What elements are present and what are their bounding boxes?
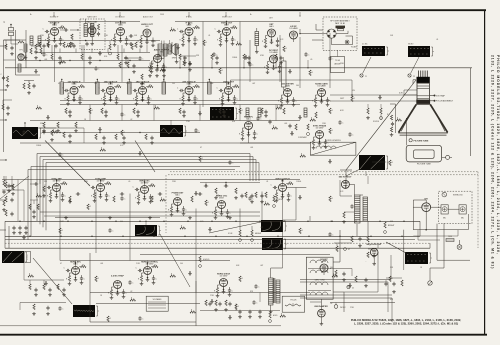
waveform photo W6 sync output (135, 225, 161, 236)
inter-row vertical wire 12 (226, 33, 228, 87)
svg-text:AUDIO OUT: AUDIO OUT (143, 16, 154, 19)
IF bias drops (90, 105, 276, 121)
capacitor cluster 42 (248, 196, 254, 200)
resistor cluster 69 (389, 160, 394, 166)
tube stage V22 vert osc (133, 180, 156, 204)
svg-text:FUSE: FUSE (448, 236, 452, 238)
vert hold pot (273, 196, 284, 207)
tube stage V3 1st audio (111, 21, 131, 46)
value label 8 (58, 83, 60, 85)
svg-text:TO HV: TO HV (335, 60, 341, 62)
svg-text:100: 100 (180, 263, 183, 265)
svg-text:4.5 MC: 4.5 MC (362, 44, 368, 46)
left mid caps (7, 184, 15, 196)
tube stage V13 video det (217, 81, 240, 105)
svg-text:PART OF B1: PART OF B1 (335, 22, 345, 25)
left edge stubs (0, 45, 7, 230)
value label 6 (232, 57, 238, 59)
svg-text:.047: .047 (260, 227, 263, 229)
bottom long wire y303 (96, 303, 200, 305)
resistor cluster 59 (130, 298, 136, 302)
bus junction dots (19, 221, 405, 238)
svg-text:.001: .001 (250, 147, 253, 149)
sound row plate bus (40, 22, 160, 41)
inter-row vertical wire 6 (83, 45, 85, 82)
svg-text:DEFL YOKE: DEFL YOKE (315, 280, 326, 282)
horiz hold control (199, 256, 211, 267)
afc discriminator parts (205, 300, 232, 311)
resistor cluster 35 (36, 194, 42, 198)
bus wire y248 (5, 247, 430, 249)
bus wire y217 segment (55, 216, 160, 218)
svg-text:PHILCO MODELS 52-T1824, 1825,: PHILCO MODELS 52-T1824, 1825, 1826, 1827… (496, 55, 500, 255)
afc filter parts (29, 284, 66, 296)
svg-text:6W4: 6W4 (322, 261, 326, 263)
IF row grid bus (60, 100, 330, 102)
value label 45 (260, 55, 265, 57)
sync row bus (40, 180, 300, 186)
audio plate parts (124, 58, 144, 85)
tube stage V25 sound takeoff (148, 48, 170, 73)
left wire x26 (25, 30, 27, 68)
waveform photo W4 vert integrator (2, 251, 28, 263)
ground node cluster 60 (210, 299, 214, 303)
tube stage V5 IF AGC (177, 21, 200, 46)
svg-text:47: 47 (58, 83, 60, 85)
sound row drops (55, 21, 148, 41)
resistor cluster 15 (36, 106, 42, 110)
value label 37 (390, 267, 394, 269)
tube stage V21 sync amp (89, 177, 112, 202)
resistor cluster 45 (329, 196, 334, 202)
bottom section vertical wire 2 (129, 194, 131, 261)
inter-row vertical wire 8 (299, 37, 301, 88)
top section label 5 (186, 16, 193, 19)
value label 21 (322, 123, 327, 125)
ground node cluster 4 (98, 51, 102, 55)
value label 49 (436, 39, 438, 41)
sync input net (30, 180, 46, 198)
value label 20 (284, 123, 287, 125)
svg-text:.05: .05 (128, 181, 130, 183)
svg-text:.001: .001 (94, 83, 97, 85)
resistor cluster 7 (170, 28, 176, 32)
sound wires v (52, 45, 118, 54)
ion trap pot (366, 104, 370, 119)
tube stage V6 video output (215, 22, 238, 46)
svg-text:.047: .047 (260, 265, 263, 267)
damper wires (310, 299, 321, 309)
value label 23 (84, 181, 89, 183)
W6 feed (145, 221, 146, 225)
capacitor cluster 22 (256, 116, 262, 120)
resistor cluster 79 (180, 226, 186, 230)
tuner feed wires (312, 24, 323, 40)
value label 58 (330, 221, 333, 223)
4.5mc sound trap coil (168, 40, 178, 63)
value label 25 (172, 181, 177, 183)
value label 13 (252, 83, 255, 85)
capacitor cluster 90 (328, 56, 334, 60)
value label 31 (100, 263, 103, 265)
video peaking coils (246, 108, 307, 117)
resistor cluster 63 (190, 310, 196, 314)
value label 55 (120, 221, 123, 223)
bus band right vertical x420 (419, 221, 421, 236)
tube stage V26 horiz osc (212, 195, 232, 219)
centering wires (196, 216, 310, 293)
svg-text:H HOLD: H HOLD (203, 259, 210, 261)
sound bias rail (18, 60, 150, 61)
resistor cluster 5 (131, 44, 136, 50)
tube stage V31 horiz disch (214, 273, 234, 297)
svg-text:1/2 6SN7: 1/2 6SN7 (316, 128, 324, 130)
svg-text:47: 47 (60, 263, 62, 265)
resistor cluster 37 (87, 204, 92, 210)
ground node cluster 12 (244, 55, 248, 59)
resistor cluster 23 (276, 106, 282, 110)
svg-text:.02: .02 (130, 291, 132, 293)
top b+ labels (30, 14, 252, 16)
vertical feeder x470 (470, 68, 472, 156)
audio B+ wire (147, 41, 162, 53)
svg-text:SEL: SEL (461, 218, 464, 220)
sound takeoff parts (180, 56, 196, 71)
svg-text:45: 45 (352, 288, 354, 290)
svg-text:1 MEG: 1 MEG (36, 145, 42, 147)
vert osc caps (240, 192, 267, 203)
screen bypass gnds (183, 61, 283, 64)
crt area labels (340, 90, 356, 112)
value label 7 (280, 39, 284, 41)
resistor cluster 25 (329, 108, 334, 114)
CRT tube symbol and label (409, 139, 429, 143)
bottom inner hairline (0, 325, 281, 327)
value label 42 (44, 59, 47, 61)
value label 46 (310, 59, 312, 61)
IF row screen bus (60, 104, 300, 106)
waveform photo W9 horiz output grid (405, 252, 432, 264)
tube stage V17 sync inv (310, 124, 330, 149)
capacitor cluster 82 (328, 232, 334, 236)
diagonal cable D1 (45, 141, 90, 187)
tube stage V32 boost (320, 259, 328, 275)
ground node cluster 92 (188, 61, 192, 65)
value label 33 (180, 263, 183, 265)
CRT heater labels (399, 90, 417, 95)
inter-row vertical wire 3 (249, 40, 251, 82)
capacitor cluster 34 (348, 132, 354, 136)
capacitor cluster 66 (138, 316, 144, 320)
ground node cluster 8 (176, 45, 180, 49)
W3 label above (408, 44, 414, 46)
IF transformer T3 (96, 79, 100, 94)
IF agc parts (95, 134, 154, 144)
value label 36 (330, 267, 333, 269)
bus wire y236 (5, 235, 420, 237)
test point 45 (347, 285, 354, 289)
diagonal cable to W10 (346, 169, 360, 176)
diagonal cable to W9 (386, 242, 406, 253)
bottom caption line 2 (354, 321, 458, 325)
svg-text:PICTURE TUBE: PICTURE TUBE (417, 164, 432, 166)
svg-text:2.2M: 2.2M (60, 221, 64, 223)
low-voltage power supply dashed box with rectifiers (439, 191, 472, 223)
svg-text:.01: .01 (436, 39, 438, 41)
svg-text:6AL5: 6AL5 (175, 194, 179, 197)
tube stage V10 2nd video IF (99, 81, 122, 105)
ground node cluster 84 (378, 95, 382, 99)
value label 22 (44, 181, 48, 183)
tube V0 converter link (18, 50, 24, 61)
svg-text:1/2 6AW8: 1/2 6AW8 (269, 51, 277, 54)
nested bus wire 4 mid band (46, 163, 259, 231)
ground node cluster 32 (290, 131, 294, 135)
tube stage V15 noise gate (312, 82, 332, 107)
tube stage V7 det peaker (262, 24, 282, 48)
capacitor cluster 6 (138, 56, 144, 60)
value label 48 (390, 35, 394, 37)
top section label 6 (222, 17, 233, 19)
capacitor cluster 46 (350, 204, 356, 208)
value label 62 (350, 307, 355, 309)
capacitor cluster 18 (120, 112, 126, 116)
value label 39 (130, 291, 132, 293)
resistor cluster 93 (219, 68, 224, 74)
power supply wiring loop (404, 200, 470, 260)
height control (251, 226, 262, 241)
capacitor cluster 26 (22, 130, 28, 134)
value label 24 (128, 181, 130, 183)
tube stage V1 1st sound IF (43, 22, 66, 46)
value label 40 (210, 295, 215, 297)
svg-text:.001: .001 (100, 263, 103, 265)
diagonal cable D2 (33, 258, 72, 304)
tube stage V12 4th video IF (177, 80, 200, 105)
horiz out cathode parts (335, 270, 368, 287)
svg-text:VOLTAGES: VOLTAGES (153, 298, 163, 301)
capacitor cluster 70 (58, 152, 64, 156)
inter-row vertical wire 4 (163, 41, 165, 83)
right margin model list line 2 (rotated) (490, 55, 494, 269)
diagonal HV lead to CRT (346, 80, 416, 170)
ant matching parts (4, 40, 25, 55)
top section label 2 (87, 16, 97, 19)
narrow dropper resistor (282, 57, 287, 90)
svg-text:47: 47 (348, 249, 350, 251)
value label 3 (104, 35, 109, 37)
resistor cluster 61 (235, 304, 240, 310)
value label 30 (60, 263, 62, 265)
ground node cluster 36 (68, 199, 72, 203)
left IF input parts (2, 100, 12, 115)
width and linearity coil box (310, 140, 356, 155)
W3 label (408, 57, 419, 78)
ground node cluster 56 (348, 283, 352, 287)
resistor cluster 21 (239, 108, 244, 114)
audio grid caps (129, 34, 137, 47)
sound bias parts (51, 54, 128, 64)
svg-text:ANODE: ANODE (334, 63, 341, 66)
bottom wires y310 (200, 293, 280, 311)
svg-text:1 MEG: 1 MEG (296, 181, 302, 183)
resistor cluster 3 (66, 44, 72, 48)
left integrator caps (12, 226, 28, 235)
vert osc wires (200, 182, 260, 186)
tone cap (162, 64, 166, 77)
svg-text:1 MEG: 1 MEG (232, 57, 238, 59)
ground node cluster 76 (22, 235, 26, 239)
nested bus wire 3 mid band (43, 160, 256, 228)
resistor cluster 51 (170, 274, 176, 278)
hi volt label box (331, 50, 345, 73)
hold control (269, 312, 279, 322)
W1 feed wire (24, 122, 25, 127)
value label 4 (134, 35, 138, 37)
value label 47 (340, 63, 345, 65)
vertical output transformer (269, 278, 281, 313)
svg-text:.01: .01 (208, 35, 210, 37)
ground node cluster 16 (46, 115, 50, 119)
tube stage V2 ratio det (87, 20, 99, 37)
capacitor cluster 86 (338, 120, 344, 124)
diagonal cable D9 (160, 234, 190, 287)
bus wire y221 (5, 220, 420, 222)
bottom section vertical wire 5 (261, 192, 263, 221)
bus band left verticals (5, 221, 9, 248)
tube stage V28 horiz afc (64, 260, 87, 285)
power loops (413, 230, 458, 240)
value label 18 (186, 121, 191, 123)
svg-text:.02: .02 (330, 303, 332, 305)
tube stage V4 audio output (138, 23, 158, 48)
diagonal cable D8 (0, 176, 29, 199)
contrast control (298, 124, 310, 139)
ground node cluster 52 (188, 271, 192, 275)
svg-text:PHILCO MODELS 52-T1824, 1825,: PHILCO MODELS 52-T1824, 1825, 1826, 1827… (351, 318, 462, 322)
capacitor cluster 94 (248, 62, 254, 66)
boost cap bank (384, 278, 403, 293)
value label 28 (296, 181, 302, 183)
capacitor cluster 58 (58, 306, 64, 310)
bottom-left wires (20, 303, 66, 316)
tube stage V8 sound conv (289, 25, 297, 42)
ground node cluster 96 (34, 69, 38, 73)
IF bias bus y120 (30, 120, 300, 122)
bus wire y254 segment (140, 253, 330, 255)
volume control (104, 41, 112, 58)
svg-text:PHONO: PHONO (340, 307, 346, 309)
nested bus wire 2 mid band (40, 157, 253, 225)
capacitor cluster 14 (304, 52, 310, 56)
power cord (428, 223, 444, 285)
resistor cluster 83 (396, 118, 402, 122)
dashed boundary vertical (477, 172, 479, 248)
W4 side box (25, 252, 31, 263)
svg-text:TP1: TP1 (19, 50, 22, 52)
vert lin control (228, 230, 241, 241)
ground node cluster 28 (98, 127, 102, 131)
RF tuner dashed module (323, 17, 357, 50)
waveform photo W11 composite video (210, 107, 238, 120)
CRT base pins (419, 71, 428, 78)
svg-text:SPKR: SPKR (172, 58, 177, 60)
svg-text:VIDEO OUT: VIDEO OUT (222, 17, 233, 19)
left divider resistors (30, 46, 42, 59)
sync row lower bus (40, 206, 260, 213)
focus control box (282, 296, 304, 312)
value label 61 (330, 303, 332, 305)
value label 9 (94, 83, 97, 85)
resistor cluster 47 (28, 274, 34, 278)
svg-text:2132, L 2226, 2227, 2235, L (C: 2132, L 2226, 2227, 2235, L (Codes 122 &… (490, 55, 494, 269)
resistor cluster 29 (121, 130, 126, 136)
svg-text:2.2M: 2.2M (126, 83, 130, 85)
hv filter wires (366, 172, 378, 248)
left sync wires (2, 176, 40, 221)
left vertical wire x3.5 (3, 40, 5, 152)
inter-row vertical wire 11 (188, 33, 190, 87)
IF transformer T5 (162, 79, 166, 94)
left under-W1 parts (40, 128, 72, 143)
waveform photo W7 vert osc grid (261, 220, 287, 232)
resistor cluster 77 (59, 228, 64, 234)
resistor cluster 89 (309, 70, 314, 76)
resistor cluster 1 (35, 44, 40, 50)
svg-text:4.5 MC TRAP: 4.5 MC TRAP (111, 274, 124, 277)
border frame right rule (484, 10, 486, 335)
svg-text:.01: .01 (266, 181, 268, 183)
left input filter (1, 74, 10, 87)
CRT focus assembly (430, 100, 454, 103)
resistor cluster 9 (203, 40, 208, 46)
value label 14 (296, 85, 299, 87)
IF transformer T2 (60, 79, 64, 94)
voltage chart box (146, 296, 168, 311)
antenna input terminals (3, 22, 14, 39)
svg-text:FOCUS: FOCUS (290, 299, 297, 301)
mid row wires (240, 130, 320, 144)
svg-text:L, 2226, 2227, 2235, L (Codes: L, 2226, 2227, 2235, L (Codes 122 & 123)… (354, 321, 458, 325)
video det coil (255, 28, 259, 53)
top border drops (53, 12, 300, 17)
svg-text:BRIGHT: BRIGHT (388, 225, 394, 227)
capacitor cluster 30 (194, 128, 200, 132)
resistor cluster 95 (60, 60, 66, 64)
resistor cluster 31 (272, 126, 278, 130)
resistor cluster 91 (160, 68, 166, 72)
inter-row vertical wire 9 (329, 33, 331, 88)
svg-text:FOCUS ASSEMBLY: FOCUS ASSEMBLY (436, 100, 454, 103)
svg-text:VOL: VOL (104, 56, 107, 58)
left lower column (2, 176, 6, 211)
capacitor cluster 54 (254, 284, 260, 288)
resistor cluster 73 (199, 156, 204, 162)
svg-text:VERT: VERT (340, 98, 344, 100)
value label 52 (200, 147, 202, 149)
left agc wires (4, 55, 41, 75)
W2 label above (362, 44, 368, 46)
value label 56 (200, 221, 204, 223)
top section label 7 (269, 18, 273, 20)
sound det bypass caps (42, 44, 75, 48)
svg-text:.047: .047 (252, 83, 255, 85)
bottom section vertical wire 4 (239, 209, 241, 231)
bottom section vertical wire 6 (95, 192, 97, 254)
dashed boundary left vertical (165, 175, 167, 233)
sound det load resistors (39, 42, 71, 48)
left sound wires (4, 39, 27, 44)
